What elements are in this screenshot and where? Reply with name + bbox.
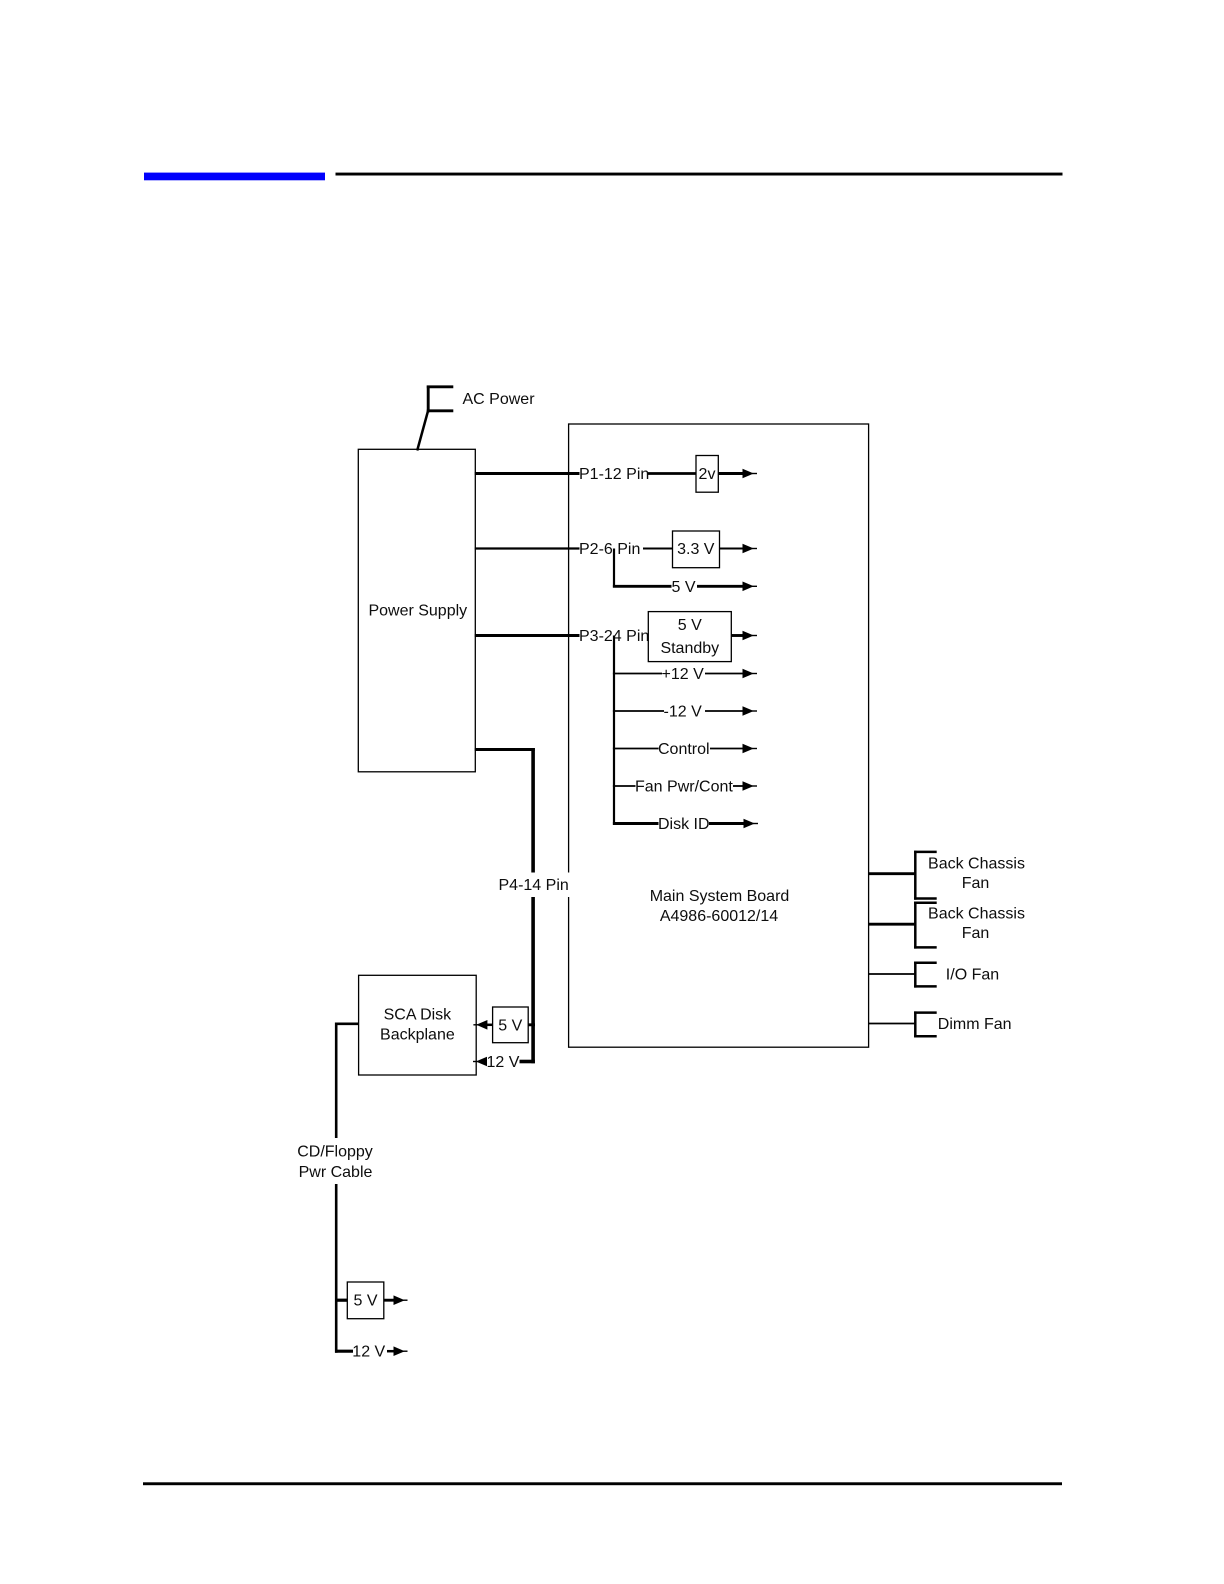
arrow 5V output — [697, 582, 757, 592]
svg-text:5 V: 5 V — [678, 617, 702, 634]
label Disk ID net — [658, 816, 710, 833]
svg-text:CD/Floppy: CD/Floppy — [297, 1144, 373, 1161]
header rule — [336, 173, 1063, 176]
arrow 5V Standby output — [731, 631, 757, 641]
label 12 V to backplane — [487, 1054, 520, 1071]
svg-text:P1-12 Pin: P1-12 Pin — [579, 466, 649, 483]
connector bracket Dimm fan — [914, 1011, 937, 1037]
wire P2 label to 3.3V box — [643, 548, 673, 550]
label -12 V net — [664, 704, 703, 721]
arrow 5V into backplane (left) — [473, 1020, 492, 1030]
arrow Disk ID output — [709, 819, 758, 829]
wire P2 from power supply — [475, 547, 580, 549]
svg-text:-12 V: -12 V — [664, 704, 703, 721]
wire stub P4 cable to 5V box — [528, 1023, 535, 1026]
regulator box 5 V (CD/floppy) — [347, 1282, 384, 1319]
arrow 2v output — [718, 469, 757, 479]
wire P4 from power supply — [475, 748, 535, 751]
arrow Control output — [710, 744, 757, 754]
svg-text:SCA Disk: SCA Disk — [384, 1006, 453, 1023]
wire 12V elbow CD/floppy — [335, 1350, 353, 1353]
AC power plug symbol — [427, 386, 454, 413]
label Fan Pwr/Cont net — [635, 779, 733, 796]
svg-text:5 V: 5 V — [498, 1017, 522, 1034]
label P2-6 Pin — [579, 541, 640, 558]
regulator box 5 V Standby — [648, 612, 731, 662]
svg-text:3.3 V: 3.3 V — [677, 541, 715, 558]
svg-text:Power Supply: Power Supply — [368, 603, 467, 620]
svg-text:Fan: Fan — [962, 875, 990, 892]
arrow 12V into backplane (left) — [473, 1057, 487, 1067]
svg-text:Main System Board: Main System Board — [650, 888, 790, 905]
wire Control branch — [613, 748, 659, 750]
label SCA Disk Backplane — [380, 1006, 455, 1043]
power supply box — [358, 449, 475, 772]
wire CD/Floppy cable vertical — [335, 1023, 338, 1353]
svg-text:Pwr Cable: Pwr Cable — [299, 1164, 373, 1181]
label Dimm Fan — [938, 1016, 1012, 1033]
label P1-12 Pin — [579, 466, 649, 483]
label Control net — [658, 741, 710, 758]
wire CD/Floppy cable horizontal from backplane — [335, 1022, 359, 1025]
regulator box 2v — [696, 456, 718, 493]
svg-text:+12 V: +12 V — [662, 666, 705, 683]
svg-text:2v: 2v — [699, 466, 716, 483]
wire back chassis fan 2 — [869, 923, 917, 926]
wire -12V branch — [613, 710, 664, 712]
label Power Supply — [368, 603, 467, 620]
wire AC cord diagonal — [417, 411, 428, 451]
svg-text:Fan: Fan — [962, 925, 990, 942]
label 5 V net — [672, 579, 696, 596]
wire Disk ID branch — [613, 822, 659, 825]
label Back Chassis Fan 2 — [928, 905, 1025, 942]
wire 12V elbow to SCA backplane — [520, 1060, 535, 1064]
svg-text:Dimm Fan: Dimm Fan — [938, 1016, 1012, 1033]
wire P1 label to 2v box — [648, 472, 696, 475]
main system board box — [569, 424, 869, 1047]
label I/O Fan — [946, 967, 999, 984]
svg-text:AC Power: AC Power — [463, 391, 536, 408]
svg-text:12 V: 12 V — [487, 1054, 520, 1071]
svg-text:P2-6 Pin: P2-6 Pin — [579, 541, 640, 558]
label Main System Board A4986-60012/14 — [650, 888, 790, 925]
arrow Fan Pwr/Cont output — [733, 781, 757, 791]
wire P4 cable vertical — [531, 748, 535, 1063]
label AC Power — [463, 391, 536, 408]
wire 5V branch drop from P2 — [613, 549, 615, 588]
arrow -12V output — [705, 706, 757, 716]
regulator box 5 V (backplane) — [493, 1007, 529, 1043]
arrow 12V CD/floppy output — [387, 1346, 408, 1356]
wire 5V branch horizontal — [613, 585, 672, 588]
wire stub to bottom 5V box — [335, 1299, 347, 1302]
svg-text:Backplane: Backplane — [380, 1026, 455, 1043]
connector bracket I/O fan — [914, 962, 937, 988]
SCA disk backplane box — [359, 975, 477, 1075]
header blue bar — [144, 173, 325, 181]
svg-text:Fan Pwr/Cont: Fan Pwr/Cont — [635, 779, 733, 796]
svg-text:5 V: 5 V — [353, 1293, 377, 1310]
svg-text:Control: Control — [658, 741, 710, 758]
wire Dimm fan — [869, 1023, 917, 1025]
svg-text:Back Chassis: Back Chassis — [928, 905, 1025, 922]
label P3-24 Pin — [579, 628, 649, 645]
wire P3 from power supply — [475, 634, 580, 637]
svg-text:5 V: 5 V — [672, 579, 696, 596]
wire I/O fan — [869, 973, 917, 975]
svg-text:Disk ID: Disk ID — [658, 816, 710, 833]
label CD/Floppy Pwr Cable — [295, 1138, 377, 1184]
wire back chassis fan 1 — [869, 872, 917, 875]
wire Fan Pwr/Cont branch — [613, 785, 636, 787]
arrow 3.3V output — [720, 544, 758, 554]
svg-text:I/O Fan: I/O Fan — [946, 967, 999, 984]
svg-text:P4-14 Pin: P4-14 Pin — [499, 877, 569, 894]
regulator box 3.3 V — [673, 531, 720, 568]
wire P1 from power supply — [475, 472, 580, 475]
connector bracket fan 2 — [914, 902, 937, 949]
svg-text:Back Chassis: Back Chassis — [928, 856, 1025, 873]
arrow +12V output — [705, 669, 757, 679]
arrow 5V CD/floppy output — [384, 1295, 408, 1305]
footer rule — [143, 1482, 1062, 1485]
svg-text:12 V: 12 V — [352, 1344, 385, 1361]
label P4-14 Pin — [494, 873, 571, 898]
label 12 V CD/floppy — [352, 1344, 385, 1361]
label +12 V net — [662, 666, 705, 683]
connector bracket fan 1 — [914, 851, 937, 900]
wire +12V branch — [613, 673, 662, 675]
wire P3 branch drop — [613, 636, 615, 825]
svg-text:A4986-60012/14: A4986-60012/14 — [660, 908, 778, 925]
svg-text:Standby: Standby — [660, 640, 719, 657]
label Back Chassis Fan 1 — [928, 856, 1025, 893]
